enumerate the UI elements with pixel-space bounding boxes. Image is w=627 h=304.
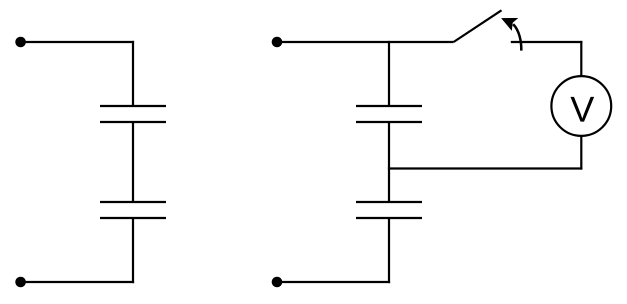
node B (left circuit, bottom terminal dot) (15, 277, 26, 288)
capacitor C3 (right circuit, upper) (356, 106, 422, 122)
wire (right circuit, bottom vertical from C4) (388, 218, 390, 283)
junction (right circuit, top node above C3) (388, 41, 390, 106)
node C (right circuit, top terminal dot) (272, 37, 283, 48)
node D (right circuit, bottom terminal dot) (272, 277, 283, 288)
wire (left circuit, bottom horizontal) (21, 281, 135, 283)
wire (left circuit, bottom vertical from C2) (132, 218, 134, 283)
capacitor C1 (left circuit, upper) (100, 106, 166, 122)
wire (horizontal from voltmeter to mid node between C3 and C4) (388, 167, 583, 169)
wire (voltmeter bottom to mid-node horizontal) (580, 136, 582, 170)
capacitor C2 (left circuit, lower) (100, 202, 166, 218)
wire (left circuit, top vertical down to C1) (132, 41, 134, 106)
wire (vertical down to voltmeter top) (580, 41, 582, 76)
wire (left circuit, vertical between C1 and C2) (132, 122, 134, 202)
switch S1 blade (open, pivot at left) (454, 10, 502, 42)
voltmeter V1 body (551, 76, 611, 136)
wire (right circuit, top horizontal to switch pivot) (277, 41, 454, 43)
wire (right circuit, bottom horizontal) (277, 281, 390, 283)
capacitor C4 (right circuit, lower) (356, 202, 422, 218)
voltmeter V1 label "V" (Liberation Sans glyph outline, 36px) (570, 97, 594, 122)
node A (left circuit, top terminal dot) (15, 37, 26, 48)
wire (switch right contact to voltmeter branch) (511, 41, 583, 43)
wire (right circuit, vertical between C3 and C4) (388, 122, 390, 202)
switch S1 closing-direction arrow (curved arc) (513, 24, 521, 50)
switch S1 arrowhead (501, 18, 518, 31)
wire (left circuit, top horizontal) (21, 41, 135, 43)
